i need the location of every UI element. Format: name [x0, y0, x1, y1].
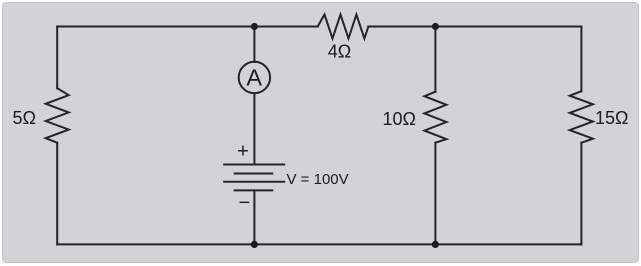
- wire: ammeter to battery: [253, 93, 255, 164]
- junction dot bottom-A: [251, 241, 258, 248]
- wire: right branch lower: [580, 143, 582, 245]
- svg-text:5Ω: 5Ω: [13, 108, 36, 128]
- svg-text:−: −: [238, 192, 250, 214]
- wire: bottom rail: [57, 243, 581, 245]
- wire: left branch lower: [56, 143, 58, 245]
- wire: left branch upper: [56, 27, 58, 89]
- svg-text:4Ω: 4Ω: [328, 41, 351, 61]
- svg-text:V = 100V: V = 100V: [287, 171, 349, 188]
- wire: top rail right segment: [368, 26, 581, 28]
- svg-text:A: A: [246, 65, 262, 91]
- wire: 10ohm branch upper: [434, 27, 436, 92]
- wire: ammeter branch top: [253, 27, 255, 63]
- resistor R-4ohm zigzag: [318, 15, 369, 39]
- battery plate short upper: [235, 173, 273, 175]
- resistor R-10ohm zigzag: [424, 92, 446, 143]
- battery plate long top: [224, 164, 284, 166]
- battery plate short bottom: [235, 189, 273, 191]
- ammeter A circle: [239, 62, 270, 93]
- junction dot top-A: [251, 23, 258, 30]
- svg-text:15Ω: 15Ω: [595, 108, 628, 128]
- wire: 10ohm branch lower: [434, 143, 436, 245]
- junction dot top-B: [432, 23, 439, 30]
- svg-text:+: +: [237, 140, 249, 162]
- wire: right branch upper: [580, 27, 582, 92]
- resistor R-5ohm zigzag: [46, 88, 69, 143]
- junction dot bottom-B: [432, 241, 439, 248]
- wire: battery to bottom rail: [253, 190, 255, 244]
- resistor R-15ohm zigzag: [570, 91, 593, 143]
- wire: top rail left segment: [57, 26, 318, 28]
- battery plate long lower: [224, 181, 284, 183]
- svg-text:10Ω: 10Ω: [383, 109, 416, 129]
